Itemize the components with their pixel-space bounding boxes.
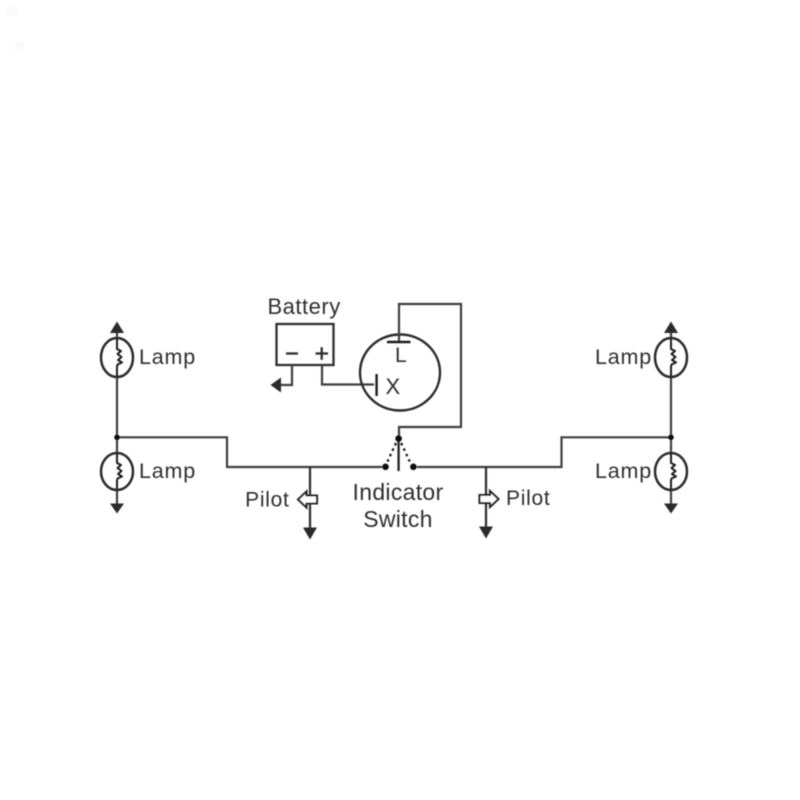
- ground arrow right pilot: [479, 527, 493, 539]
- lamp left front: [101, 338, 133, 377]
- right lamp column wire: [670, 331, 672, 504]
- left lamp column wire: [116, 331, 118, 504]
- svg-text:Lamp: Lamp: [595, 345, 652, 369]
- svg-text:L: L: [395, 344, 407, 367]
- wire battery negative: [280, 365, 292, 385]
- wire battery positive to terminal X: [322, 365, 374, 385]
- terminal L bar: [387, 341, 411, 344]
- left pilot branch wire: [309, 467, 311, 528]
- lamp left rear: [101, 453, 133, 490]
- battery B1: [277, 324, 334, 365]
- svg-text:Lamp: Lamp: [595, 459, 652, 483]
- svg-text:Lamp: Lamp: [139, 459, 196, 483]
- ground arrow right lamps: [664, 504, 678, 514]
- battery label: [268, 294, 341, 319]
- left pilot lamp arrow: [298, 492, 317, 508]
- right pilot branch wire: [485, 467, 487, 527]
- label Pilot left: [245, 489, 289, 512]
- wire left lamps to switch: [117, 437, 382, 467]
- switch throw dashed right: [401, 443, 410, 462]
- label Lamp right rear: [595, 459, 652, 483]
- junction dot right lamps: [668, 435, 674, 441]
- switch contact dot right: [410, 464, 417, 471]
- indicator switch label: [353, 479, 444, 532]
- lamp right rear: [655, 453, 687, 490]
- ground arrow left pilot: [303, 528, 317, 540]
- label Pilot right: [506, 487, 550, 510]
- ground arrow battery negative: [271, 378, 282, 393]
- label X: [386, 374, 401, 399]
- label L: [395, 344, 407, 367]
- svg-text:Pilot: Pilot: [506, 487, 550, 510]
- svg-text:Lamp: Lamp: [139, 345, 196, 369]
- svg-text:Pilot: Pilot: [245, 489, 289, 512]
- flasher unit U1: [360, 335, 440, 411]
- right pilot lamp arrow: [480, 491, 499, 507]
- direction arrow up right: [664, 322, 678, 334]
- ground arrow left lamps: [110, 504, 124, 514]
- terminal X tick: [375, 374, 377, 396]
- svg-text:X: X: [386, 374, 401, 399]
- junction dot switch pole: [395, 435, 402, 442]
- label Lamp left front: [139, 345, 196, 369]
- direction arrow up left: [110, 322, 124, 334]
- wire right lamps to switch: [417, 437, 671, 467]
- svg-text:Indicator: Indicator: [353, 479, 444, 505]
- switch contact dot left: [382, 464, 389, 471]
- label Lamp right front: [595, 345, 652, 369]
- label Lamp left rear: [139, 459, 196, 483]
- lamp right front: [655, 338, 687, 377]
- svg-text:Battery: Battery: [268, 294, 341, 319]
- junction dot left lamps: [114, 435, 120, 441]
- wire L loop: [399, 304, 461, 436]
- switch throw dashed left: [388, 443, 397, 462]
- switch pole wire: [397, 441, 399, 471]
- svg-text:Switch: Switch: [363, 506, 433, 532]
